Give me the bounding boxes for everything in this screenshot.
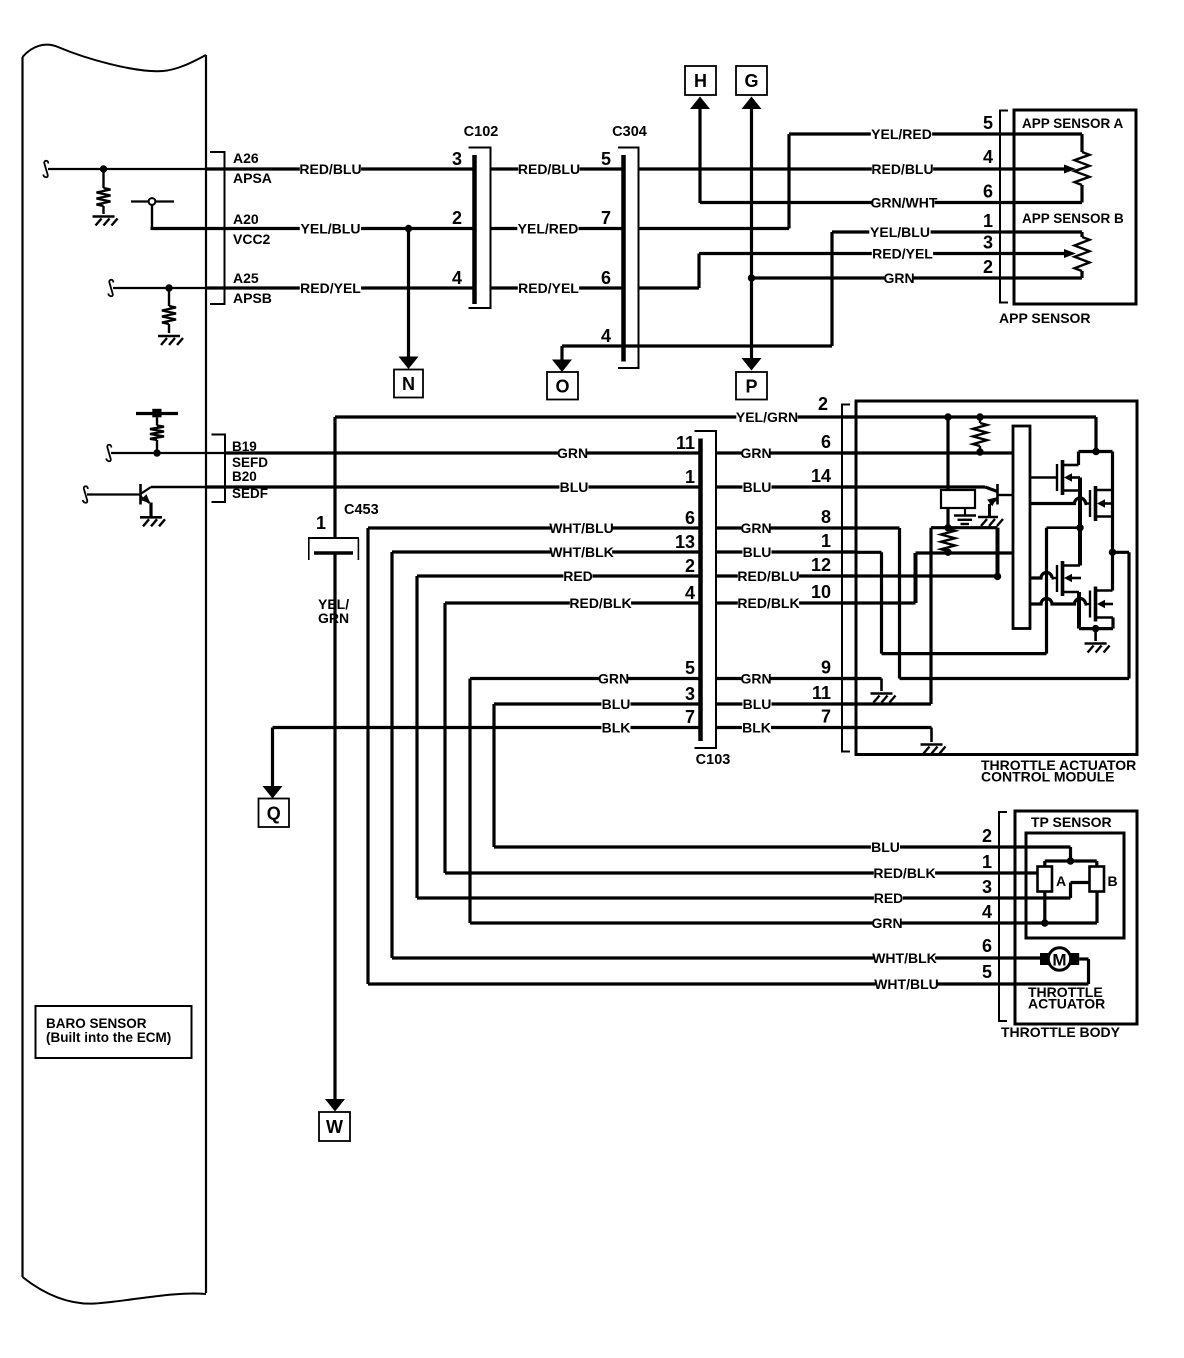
ground APSA pulldown xyxy=(93,215,115,218)
svg-text:GRN: GRN xyxy=(598,671,629,687)
ECM connector bracket (pins B19/B20) xyxy=(212,435,226,503)
wire WHT/BLK riser xyxy=(390,552,393,958)
label YEL/BLU (A20) xyxy=(300,222,361,235)
svg-text:13: 13 xyxy=(675,532,695,552)
svg-text:1: 1 xyxy=(821,531,831,551)
label GRN (pin9) xyxy=(741,672,770,685)
svg-text:RED/BLU: RED/BLU xyxy=(299,161,361,177)
label RED/BLU (mid) xyxy=(518,163,579,176)
wire branch to N xyxy=(407,229,410,359)
label YEL/GRN (vertical) xyxy=(314,595,350,627)
wire APSB internal xyxy=(113,287,206,289)
label WHT/BLK (left) xyxy=(551,546,612,559)
svg-text:6: 6 xyxy=(983,182,993,202)
svg-text:4: 4 xyxy=(982,902,992,922)
svg-text:3: 3 xyxy=(982,877,992,897)
wire pin1 drop xyxy=(880,552,883,653)
connector symbol G xyxy=(736,66,767,95)
wire VCC2 stem xyxy=(151,205,153,227)
resistor internal APSA xyxy=(102,171,104,188)
wire branch to Q xyxy=(271,728,274,788)
wire gate Q2 with hop xyxy=(1030,498,1086,504)
node junction mosfet rail xyxy=(1092,448,1099,455)
resistor R-A TACM xyxy=(979,417,981,423)
svg-text:WHT/BLU: WHT/BLU xyxy=(549,520,614,536)
wire TP pin3 to pot B xyxy=(1015,896,1071,899)
svg-text:YEL/GRN: YEL/GRN xyxy=(736,409,798,425)
svg-text:6: 6 xyxy=(601,268,611,288)
wire continuation squiggle SEDF base xyxy=(83,486,88,503)
wire BLK C103-TACM pin7 xyxy=(716,726,856,729)
node junction resistorB top xyxy=(944,524,951,531)
wire GRN/WHT to APP pin6 xyxy=(700,201,1014,204)
svg-text:C304: C304 xyxy=(612,124,647,140)
wire WHT/BLK row to motor xyxy=(392,956,1015,959)
label GRN (pin8) xyxy=(741,522,770,535)
resistor internal SEFD xyxy=(156,417,158,425)
svg-text:6: 6 xyxy=(821,432,831,452)
wire WHT/BLU riser xyxy=(366,528,369,984)
wire crosslink top row xyxy=(1047,526,1081,529)
svg-text:BLK: BLK xyxy=(742,720,771,736)
svg-text:RED: RED xyxy=(874,890,904,906)
wire RED riser xyxy=(415,576,418,898)
connector C304 xyxy=(618,148,639,369)
wire motor left lead xyxy=(1015,956,1040,959)
wire to G with up arrow xyxy=(742,97,762,110)
label RED/YEL (A25) xyxy=(300,282,361,295)
svg-text:1: 1 xyxy=(685,467,695,487)
svg-text:RED: RED xyxy=(563,568,593,584)
transistor SEDF emitter xyxy=(141,497,150,503)
wire gate Q4 with hops xyxy=(1030,599,1086,605)
node junction APSA pulldown xyxy=(100,165,107,172)
wire WHT/BLU row to motor xyxy=(368,982,1015,985)
svg-text:1: 1 xyxy=(983,211,993,231)
wire TP pin2 to pots xyxy=(1015,845,1071,848)
wire A26 RED/BLU to C102 xyxy=(206,167,475,170)
wire continuation squiggle APSA xyxy=(43,161,48,178)
connector symbol H xyxy=(685,66,716,95)
svg-text:A20: A20 xyxy=(233,211,259,227)
svg-text:4: 4 xyxy=(983,147,993,167)
wire YEL/GRN vertical lower to W xyxy=(333,553,336,1100)
connector symbol O xyxy=(547,372,578,400)
wire pin11 riser xyxy=(929,528,932,704)
svg-text:THROTTLE BODY: THROTTLE BODY xyxy=(1001,1024,1121,1040)
svg-text:BLK: BLK xyxy=(602,720,631,736)
resistor internal APSB xyxy=(168,290,170,306)
node junction Q2-Q4 rail xyxy=(1109,549,1116,556)
label GRN (TP) xyxy=(872,917,901,930)
wire rail corner to mosfet top xyxy=(1094,417,1097,452)
label BLU (pin1) xyxy=(742,546,771,559)
wire bridge output stem xyxy=(1094,629,1097,641)
wire C304 pin4 row xyxy=(562,344,832,347)
svg-text:B20: B20 xyxy=(232,469,257,484)
svg-text:11: 11 xyxy=(812,683,831,703)
svg-text:2: 2 xyxy=(452,208,462,228)
label YEL/RED (mid) xyxy=(517,222,578,235)
svg-text:RED/YEL: RED/YEL xyxy=(872,246,933,262)
svg-text:A: A xyxy=(1056,873,1066,889)
label BLU (mid left) xyxy=(601,698,630,711)
label GRN/WHT xyxy=(873,196,934,209)
connector symbol P xyxy=(736,372,767,400)
node junction Q1-Q3 xyxy=(1076,524,1083,531)
wire A20 YEL/BLU to C102 xyxy=(206,227,475,230)
svg-text:3: 3 xyxy=(685,684,695,704)
svg-text:GRN: GRN xyxy=(883,270,914,286)
node junction bridge output xyxy=(1092,625,1099,632)
svg-text:P: P xyxy=(745,376,757,396)
wire continuation squiggle SEFD xyxy=(106,445,111,462)
wire Q4 source down xyxy=(1111,618,1114,629)
svg-text:2: 2 xyxy=(685,556,695,576)
svg-text:6: 6 xyxy=(982,936,992,956)
svg-text:BLU: BLU xyxy=(743,696,772,712)
svg-text:12: 12 xyxy=(811,555,831,575)
svg-text:RED/BLU: RED/BLU xyxy=(737,568,799,584)
node junction rail-block xyxy=(944,413,951,420)
svg-text:GRN/WHT: GRN/WHT xyxy=(871,195,938,211)
wire SEDF base xyxy=(87,493,141,495)
svg-text:M: M xyxy=(1052,951,1066,970)
wire pin6 row inside TACM xyxy=(856,451,1013,454)
svg-text:(Built into the ECM): (Built into the ECM) xyxy=(46,1030,171,1045)
wire link down to pin12 row xyxy=(996,528,1000,577)
wire gate Q3 with hop xyxy=(1030,573,1052,579)
node junction SEFD pullup xyxy=(153,449,160,456)
svg-text:G: G xyxy=(744,71,758,91)
connector symbol Q xyxy=(259,799,290,828)
wire BLU C103-TACM xyxy=(716,485,856,488)
svg-text:7: 7 xyxy=(601,208,611,228)
ECM module band right edge (wire) xyxy=(205,55,207,1293)
label BLU (TP) xyxy=(871,841,900,854)
wire Q3 source down xyxy=(1077,592,1081,629)
wire continuation squiggle APSB xyxy=(108,280,113,297)
svg-text:RED/YEL: RED/YEL xyxy=(300,280,361,296)
svg-text:11: 11 xyxy=(676,433,695,453)
ground pin9 GRN xyxy=(871,692,893,695)
transistor Q1 (mosfet) xyxy=(1056,464,1058,491)
svg-text:CONTROL MODULE: CONTROL MODULE xyxy=(981,769,1115,785)
svg-text:4: 4 xyxy=(601,326,611,346)
wire BLU riser xyxy=(492,704,495,847)
label YEL/GRN xyxy=(736,411,797,424)
label BLK (left) xyxy=(601,721,630,734)
potentiometer TP B xyxy=(1090,867,1105,892)
svg-text:GRN: GRN xyxy=(740,445,771,461)
power feed bar SEFD xyxy=(136,412,178,415)
motor throttle actuator xyxy=(1048,948,1070,970)
svg-text:1: 1 xyxy=(982,852,992,872)
wire block to resistor B xyxy=(946,508,949,528)
svg-text:7: 7 xyxy=(821,707,831,727)
svg-text:VCC2: VCC2 xyxy=(233,231,271,247)
svg-text:C103: C103 xyxy=(696,752,731,768)
node junction rail-resistor xyxy=(976,413,983,420)
transistor TACM emitter xyxy=(990,499,998,505)
wire YEL/RED C102-C304 xyxy=(491,227,624,230)
svg-text:5: 5 xyxy=(685,658,695,678)
ECM band wavy top edge xyxy=(23,45,207,72)
wires crossing TACM bracket xyxy=(842,415,856,418)
wire YEL/RED to APP pin5 xyxy=(789,132,1014,135)
wire RED row to TP pin3 xyxy=(417,896,1015,899)
svg-text:B: B xyxy=(1108,873,1118,889)
svg-text:APP SENSOR: APP SENSOR xyxy=(999,310,1091,326)
capacitor C453 xyxy=(308,537,359,539)
wire BLK row xyxy=(273,726,701,729)
wire SEDF BLU to C103 xyxy=(206,485,701,488)
transistor Q3 (mosfet) xyxy=(1056,565,1058,592)
svg-text:BARO SENSOR: BARO SENSOR xyxy=(46,1016,147,1031)
svg-text:Q: Q xyxy=(267,803,281,823)
wire to H with up arrow xyxy=(690,97,710,110)
transistor Q4 (mosfet) xyxy=(1089,591,1091,618)
wire pin11 riser link xyxy=(931,526,998,529)
svg-text:BLU: BLU xyxy=(743,479,772,495)
svg-text:A26: A26 xyxy=(233,150,259,166)
svg-text:7: 7 xyxy=(685,707,695,727)
svg-text:3: 3 xyxy=(983,233,993,253)
wire GRN row to TP pin4 xyxy=(470,921,1015,924)
svg-text:5: 5 xyxy=(601,149,611,169)
label BLU (pin11) xyxy=(742,698,771,711)
wire YEL/RED riser xyxy=(639,227,790,230)
wire GRN row mid xyxy=(470,677,701,680)
wire RED/BLU C102-C304 xyxy=(491,167,624,170)
transistor TACM (base bar) xyxy=(996,484,999,505)
node junction APSB pulldown xyxy=(165,284,172,291)
svg-text:H: H xyxy=(694,71,707,91)
svg-text:WHT/BLK: WHT/BLK xyxy=(549,544,614,560)
THROTTLE BODY box xyxy=(1015,811,1137,1024)
svg-text:2: 2 xyxy=(982,826,992,846)
wire resistorB row to driver bar xyxy=(916,551,1014,554)
wire mosfet top rail xyxy=(1079,450,1113,453)
APP sensor bracket xyxy=(1000,111,1008,303)
svg-text:5: 5 xyxy=(983,113,993,133)
wire crosslink riser xyxy=(1045,528,1048,654)
wire RED/BLU C304 to APP pin4 xyxy=(639,167,1015,170)
wire RED/YEL C102-C304 xyxy=(491,286,624,289)
node junction pot A bottom xyxy=(1041,919,1048,926)
svg-text:APSA: APSA xyxy=(233,170,272,186)
wire block feed xyxy=(946,417,949,490)
wire WHT/BLK row upper xyxy=(392,550,701,553)
label RED/BLU (pin12) xyxy=(738,570,799,583)
node junction pin12 link xyxy=(994,573,1001,580)
wire right link riser xyxy=(1113,551,1130,553)
svg-text:APSB: APSB xyxy=(233,290,272,306)
svg-text:8: 8 xyxy=(821,507,831,527)
wire RED/BLK row upper xyxy=(445,601,701,604)
wire Q1 source down xyxy=(1078,478,1082,566)
transistor SEDF collector xyxy=(141,487,152,494)
svg-text:RED/BLK: RED/BLK xyxy=(569,595,631,611)
node junction GRN-G xyxy=(748,274,755,281)
node junction resistorA-pin6row xyxy=(976,448,983,455)
THROTTLE ACTUATOR CONTROL MODULE box xyxy=(856,401,1137,755)
label RED/BLK (TP) xyxy=(874,867,935,880)
label RED (TP) xyxy=(874,892,903,905)
transistor internal SEDF (base bar) xyxy=(139,484,142,505)
wire BLU C103-TACM pin1 xyxy=(716,550,856,553)
svg-text:2: 2 xyxy=(818,394,828,414)
svg-text:RED/BLU: RED/BLU xyxy=(518,161,580,177)
ECM module band left edge (wire) xyxy=(21,57,23,1277)
node junction pot rail xyxy=(1067,857,1074,864)
label GRN (SEFD left) xyxy=(558,447,587,460)
TP SENSOR box xyxy=(1026,833,1124,938)
connector C103 xyxy=(695,431,717,748)
label WHT/BLU (TP) xyxy=(876,978,937,991)
wire lower crosslink row xyxy=(882,652,1047,655)
label RED/YEL (mid) xyxy=(518,282,579,295)
svg-text:BLU: BLU xyxy=(602,696,631,712)
wiper arrow APP sensor B xyxy=(1014,252,1064,255)
ground pin7 BLK xyxy=(921,743,943,746)
svg-text:BLU: BLU xyxy=(871,839,900,855)
wire pin1 row inside TACM xyxy=(856,551,882,554)
wire RED row upper xyxy=(417,574,701,577)
svg-text:APP SENSOR B: APP SENSOR B xyxy=(1022,211,1124,226)
svg-text:C102: C102 xyxy=(464,124,499,140)
label YEL/RED (right) xyxy=(871,128,932,141)
wire pin8 link row lower xyxy=(900,677,1130,680)
label RED/YEL (right) xyxy=(872,247,933,260)
svg-text:GRN: GRN xyxy=(557,445,588,461)
svg-text:6: 6 xyxy=(685,508,695,528)
wire A25 RED/YEL to C102 xyxy=(206,286,475,289)
wire WHT/BLU row upper xyxy=(368,526,701,529)
VCC2 supply circle terminal xyxy=(131,200,149,202)
wire VCC2 row inside ECM xyxy=(151,227,207,230)
wire YEL/GRN row to TACM pin2 xyxy=(335,415,856,418)
label BLU (SEDF left) xyxy=(559,481,588,494)
wire RED/BLK C103-TACM xyxy=(716,601,856,604)
svg-text:RED/YEL: RED/YEL xyxy=(518,280,579,296)
svg-text:3: 3 xyxy=(452,149,462,169)
wire GRN C103-TACM pin9 xyxy=(716,677,856,680)
resistor R-B TACM xyxy=(941,529,955,551)
label YEL/BLU (right) xyxy=(869,226,930,239)
BARO SENSOR note box xyxy=(36,1006,192,1058)
wire motor right lead xyxy=(1079,957,1088,960)
svg-text:YEL/RED: YEL/RED xyxy=(871,126,932,142)
throttle body bracket xyxy=(999,812,1007,1021)
wire branch to O xyxy=(560,346,563,361)
node junction N-branch xyxy=(405,225,412,232)
svg-text:A25: A25 xyxy=(233,270,259,286)
svg-text:SEFD: SEFD xyxy=(232,455,268,470)
wire GRN C103-TACM pin8 xyxy=(716,526,856,529)
svg-text:5: 5 xyxy=(982,962,992,982)
label GRN (right) xyxy=(741,447,770,460)
potentiometer APP sensor B xyxy=(1014,230,1082,233)
wire RED/BLK row to TP pin1 xyxy=(445,871,1015,874)
ECM connector bracket (pins A26/A20/A25) xyxy=(210,152,225,304)
wire pin12 row inside TACM xyxy=(856,574,998,577)
connector C102 xyxy=(469,148,491,309)
APP sensor box xyxy=(1014,110,1136,304)
wire pin10 riser link xyxy=(914,553,918,603)
label RED/BLK (pin10) xyxy=(738,597,799,610)
wire pin9 row inside TACM xyxy=(856,677,882,680)
svg-text:W: W xyxy=(326,1117,343,1137)
wire RED/YEL riser xyxy=(639,286,700,289)
potentiometer TP A xyxy=(1038,867,1053,892)
wire YEL/BLU riser xyxy=(830,232,833,346)
wire pin7 row inside TACM xyxy=(856,726,932,729)
wire pin14 row inside TACM xyxy=(856,485,985,488)
transistor TACM collector xyxy=(998,494,1013,496)
logic block xyxy=(941,490,975,508)
label WHT/BLK (TP) xyxy=(874,952,935,965)
svg-text:YEL/RED: YEL/RED xyxy=(518,221,579,237)
svg-text:GRN: GRN xyxy=(871,915,902,931)
svg-text:YEL/BLU: YEL/BLU xyxy=(870,224,930,240)
wire pin8 row inside TACM xyxy=(856,526,900,529)
potentiometer APP sensor A xyxy=(1014,132,1082,135)
label BLK (pin7) xyxy=(742,721,771,734)
wire pin2 rail inside TACM xyxy=(856,415,1096,418)
svg-text:RED/BLK: RED/BLK xyxy=(873,865,935,881)
wire GRN to APP pin2 xyxy=(752,276,1015,279)
label BLU (right) xyxy=(742,481,771,494)
wire RED/BLK riser xyxy=(443,603,446,873)
svg-text:C453: C453 xyxy=(344,502,379,518)
svg-text:WHT/BLU: WHT/BLU xyxy=(874,976,939,992)
wire SEFD GRN to C103 xyxy=(225,451,701,454)
label GRN (right top) xyxy=(884,272,913,285)
wire pin10 row inside TACM xyxy=(856,601,916,604)
connector symbol N xyxy=(394,370,423,398)
svg-text:1: 1 xyxy=(316,513,326,533)
wire BLU C103-TACM pin11 xyxy=(716,702,856,705)
svg-text:2: 2 xyxy=(983,257,993,277)
svg-text:YEL/BLU: YEL/BLU xyxy=(301,221,361,237)
svg-text:RED/BLK: RED/BLK xyxy=(737,595,799,611)
wire RED/BLU C103-TACM xyxy=(716,574,856,577)
svg-text:10: 10 xyxy=(811,582,831,602)
svg-text:GRN: GRN xyxy=(740,520,771,536)
wire GRN C103-TACM xyxy=(716,451,856,454)
wire link riser right xyxy=(1127,552,1130,678)
label GRN (mid left) xyxy=(599,672,628,685)
node junction resistorB bottom xyxy=(944,549,951,556)
earth ground under block xyxy=(964,508,966,516)
connector symbol W xyxy=(319,1112,350,1141)
svg-text:APP SENSOR A: APP SENSOR A xyxy=(1022,116,1124,131)
wire GRN riser xyxy=(468,679,471,924)
svg-text:ACTUATOR: ACTUATOR xyxy=(1028,996,1105,1012)
wire gate Q1 xyxy=(1030,476,1057,478)
svg-text:N: N xyxy=(402,374,415,394)
wire APSA internal xyxy=(48,168,206,170)
label RED (left) xyxy=(563,570,592,583)
wire link top xyxy=(1113,551,1130,554)
wire BLU row to TP pin2 xyxy=(494,845,1015,848)
TACM connector bracket xyxy=(842,405,850,752)
svg-text:O: O xyxy=(555,376,569,396)
ground SEDF emitter xyxy=(140,516,162,519)
svg-text:GRN: GRN xyxy=(740,671,771,687)
svg-text:RED/BLU: RED/BLU xyxy=(871,161,933,177)
